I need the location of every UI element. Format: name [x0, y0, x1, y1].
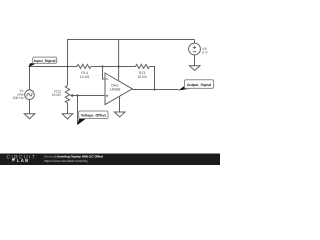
resistor R13: [136, 64, 150, 78]
wire op-amp V- pin down: [119, 97, 121, 112]
node junction minus-input T at (102,66.2): [101, 65, 103, 67]
svg-text:Output_Signal: Output_Signal: [187, 83, 212, 87]
op-amp U1 OA3 LM358: [105, 73, 132, 105]
wire input/feedback net (Input_Signal to R13): [29, 66, 136, 68]
svg-text:10 kΩ: 10 kΩ: [80, 75, 90, 79]
watermark bottom bar: [0, 154, 220, 166]
svg-text:LM358: LM358: [110, 88, 121, 92]
voltage source V8 5V: [189, 40, 209, 66]
watermark url text: [44, 159, 88, 163]
svg-text:5 V: 5 V: [202, 50, 208, 54]
ground under V1: [24, 114, 35, 119]
svg-text:https://www.circuitlab.com/cl4: https://www.circuitlab.com/cl4rj: [44, 159, 88, 163]
svg-text:10 kΩ: 10 kΩ: [137, 75, 147, 79]
potentiometer R12: [52, 85, 78, 103]
wire plus input from wiper: [78, 95, 106, 97]
ground under R12: [62, 114, 73, 119]
node junction input crossing at (67,66.5): [67, 66, 69, 68]
wire R12 bottom lead: [67, 103, 69, 114]
wire R13 right lead down to output: [150, 67, 155, 90]
svg-text:Input_Signal: Input_Signal: [34, 59, 56, 63]
watermark title text: [44, 155, 103, 159]
svg-text:LAB: LAB: [17, 158, 30, 163]
wire op-amp V+ pin vertical: [118, 40, 120, 81]
wire op-amp output: [132, 89, 178, 91]
wire R12 top lead from rail: [67, 40, 69, 86]
wire minus input stub: [103, 67, 106, 80]
node junction output T at (154,89.5): [153, 88, 155, 90]
net label Voltage_Offset: [77, 111, 108, 125]
node junction offset T at (77,95.6): [76, 94, 78, 96]
ground under op-amp: [114, 112, 125, 117]
svg-text:100 Hz: 100 Hz: [13, 96, 24, 100]
CircuitLab logo: [6, 154, 36, 163]
wire Voltage_Offset stub down: [77, 96, 79, 125]
svg-text:Voltage_Offset: Voltage_Offset: [81, 114, 107, 118]
svg-text:10 kΩ: 10 kΩ: [52, 93, 62, 97]
net label Output_Signal: [178, 80, 213, 91]
wire +5V top rail: [67, 39, 195, 41]
node junction V+ crossing at (118.7,66.2): [118, 65, 120, 67]
resistor R14: [77, 64, 91, 79]
voltage source V1 sine: [13, 67, 35, 114]
ground under V8: [189, 66, 200, 71]
net label Input_Signal: [29, 57, 57, 67]
